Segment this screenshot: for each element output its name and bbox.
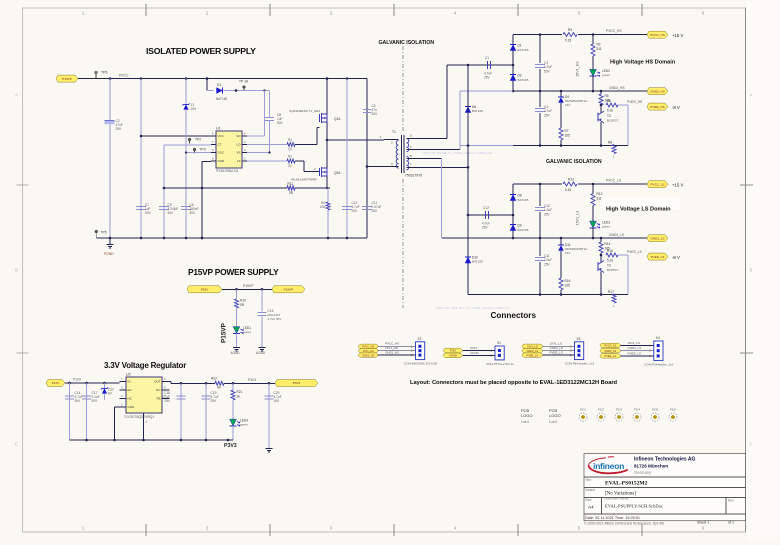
svg-text:D8: D8 [518,194,522,198]
svg-text:Rev:: Rev: [728,499,735,503]
svg-text:16V: 16V [565,103,570,107]
wire x540 vertical HS [539,35,541,146]
svg-text:PVCC: PVCC [119,74,129,78]
svg-text:Date: 02.11.2021 Time:: Date: 02.11.2021 Time: 15:25:51 [585,516,640,520]
resistor R12 led chain [592,184,594,194]
LED LED2 [590,69,597,76]
zener D4 chain [560,91,562,97]
svg-text:-8 V: -8 V [672,255,680,260]
U2 gnd stub to rail [115,406,120,408]
svg-text:GND2_LS: GND2_LS [609,233,625,237]
svg-text:15V1_HS: 15V1_HS [576,61,580,77]
high voltage LS domain subcircuit [602,197,680,209]
transformer core [401,135,403,173]
wire GND2_LS to connector [621,350,654,352]
test point TP2 [188,138,191,141]
svg-text:LOGO: LOGO [521,413,533,418]
wire VS y152.5 right [247,152,270,154]
svg-text:Q1A: Q1A [334,117,341,121]
svg-text:green: green [602,73,610,77]
net flag PVCC_HS [359,344,379,348]
svg-text:PVEE_LS: PVEE_LS [550,351,563,355]
ground AGND under LED1 [233,347,240,349]
capacitor C6 [181,206,191,208]
svg-text:50V: 50V [190,211,197,215]
wire bottom rail LS [468,294,628,296]
svg-text:R2: R2 [288,155,292,159]
svg-text:25V: 25V [372,209,379,213]
resistor R2 gate LS [247,160,287,162]
wire bottom rail HS [513,145,628,147]
svg-text:50V: 50V [168,211,175,215]
svg-text:R12: R12 [597,192,603,196]
svg-text:165: 165 [565,284,571,288]
svg-text:TP6: TP6 [101,71,107,75]
resistor R5 pvee chain [600,91,602,94]
svg-text:25V: 25V [164,399,171,403]
svg-text:BAT165: BAT165 [472,260,483,264]
svg-text:ISOLATED POWER SUPPLY: ISOLATED POWER SUPPLY [146,46,256,56]
net flag P15V [443,348,463,353]
svg-text:GND: GND [128,405,136,409]
diode D8 [510,194,516,200]
net flag 15V1_HS [359,349,379,353]
resistor R16 [559,278,563,290]
svg-text:P15VP: P15VP [62,77,72,81]
svg-text:5.1k: 5.1k [607,108,613,112]
svg-text:TP 1A: TP 1A [239,80,249,84]
wire vertical x164 [163,145,165,238]
svg-text:5.1k: 5.1k [607,258,613,262]
wire vertical x264.5 to VD pin [264,91,266,137]
svg-text:FID5: FID5 [652,408,659,412]
svg-text:15V1_LS: 15V1_LS [628,341,640,345]
svg-text:B: B [15,268,18,273]
svg-text:© 2009-2021 Altium Limited and: © 2009-2021 Altium Limited and its licen… [584,522,665,526]
wire PVEE_LS to connector [543,354,575,356]
svg-text:1k: 1k [237,394,241,398]
svg-text:10k: 10k [320,205,326,209]
svg-text:15V: 15V [191,107,198,111]
transistor T2 [600,105,602,113]
svg-text:CON-PTSA-2.5/2-LL: CON-PTSA-2.5/2-LL [486,362,515,366]
svg-text:P15VP: P15VP [284,288,294,292]
net flag P15VP right [272,286,305,293]
svg-text:FID2: FID2 [598,408,605,412]
svg-text:GND2_HS: GND2_HS [385,351,399,355]
connector X4 [654,341,663,360]
svg-text:50V: 50V [92,399,99,403]
resistor R13 [562,181,578,186]
net flag PVCC_LS [647,181,668,188]
svg-text:P15V: P15V [201,288,210,292]
svg-text:15V1_LS: 15V1_LS [527,345,538,349]
svg-text:PX3519DM-G4: PX3519DM-G4 [216,169,239,173]
svg-text:CT: CT [218,143,222,147]
svg-text:PVEE_LS: PVEE_LS [651,255,665,259]
svg-text:R1: R1 [288,138,292,142]
svg-text:C: C [15,442,18,447]
wire x442 light LS [441,159,443,239]
net flag P12V input [46,380,65,387]
svg-text:R14: R14 [605,242,611,246]
net flag P15V left [187,286,222,293]
svg-text:10: 10 [288,148,292,152]
svg-text:R17: R17 [608,290,614,294]
diode D1 branch [206,79,208,91]
svg-text:FID1: FID1 [580,408,587,412]
svg-text:R15: R15 [607,249,613,253]
title block frame [584,454,746,521]
frame row ticks and letters [17,184,29,186]
resistor R21 led chain [232,383,234,390]
capacitor C2 polarized [105,121,115,125]
svg-text:BAT165: BAT165 [472,109,483,113]
resistor R15 [600,254,603,257]
svg-text:CON-PinHeader_1x3: CON-PinHeader_1x3 [565,362,595,366]
svg-text:BAT165: BAT165 [518,198,529,202]
LED LED3 [590,221,597,228]
svg-text:High Voltage HS Domain: High Voltage HS Domain [610,60,676,66]
svg-text:OSC: OSC [218,151,225,155]
svg-text:P3V3: P3V3 [248,378,256,382]
svg-text:25V: 25V [544,212,551,216]
svg-text:IRLML6346TRPBF: IRLML6346TRPBF [291,177,317,181]
svg-text:X1: X1 [497,341,501,345]
svg-text:16V: 16V [274,399,281,403]
svg-text:IN: IN [128,380,131,384]
svg-text:Logo2: Logo2 [549,420,558,424]
svg-text:15V1_HS: 15V1_HS [385,346,398,350]
LED1 P15VP indicator [233,327,240,334]
svg-text:FB: FB [157,397,161,401]
wire primary node y140 [327,139,384,141]
wire vertical x141 [140,79,142,238]
svg-text:EN: EN [128,388,132,392]
svg-text:4.7uF 50V: 4.7uF 50V [268,317,282,321]
transistor T3 [600,253,602,263]
svg-text:R3: R3 [568,28,572,32]
svg-text:D1: D1 [217,83,221,87]
svg-text:T2: T2 [607,114,611,118]
svg-text:15V1_HS: 15V1_HS [363,349,374,353]
capacitor C19 [205,383,207,440]
capacitor C4 [534,107,546,113]
resistor R3 [562,32,578,37]
svg-text:LOGO: LOGO [549,413,561,418]
svg-text:GND2_LS: GND2_LS [650,236,664,240]
svg-text:green: green [243,330,251,334]
wire vertical x367 [366,79,368,238]
svg-text:25V: 25V [544,113,551,117]
svg-text:PVCC_HS: PVCC_HS [606,29,622,33]
svg-text:BAT165: BAT165 [518,78,529,82]
svg-text:P3V3: P3V3 [224,443,237,449]
svg-text:GND2_HS: GND2_HS [609,86,625,90]
wire vertical x186 [185,79,187,238]
wire gnd rail GND2_LS [442,237,648,239]
svg-text:0R: 0R [240,303,245,307]
wire OSC y152.5 [186,152,211,154]
svg-text:TP2: TP2 [195,138,201,142]
svg-text:BC857C: BC857C [607,118,619,122]
resistor R2 led chain [592,35,594,45]
svg-text:R2: R2 [597,43,601,47]
ground symbol PGND [109,238,111,244]
net flag PVEE_LS [600,354,621,358]
net flag GND2_HS [359,353,379,357]
infineon logo [589,457,628,474]
net flag PVEE_LS [522,353,543,357]
net flag PVEE_HS [647,103,668,110]
svg-text:GALVANIC ISOLATION: GALVANIC ISOLATION [379,40,435,46]
svg-text:A: A [15,93,18,98]
svg-text:LS: LS [237,159,241,163]
svg-text:P15VP: P15VP [243,284,254,288]
svg-text:25V: 25V [116,127,123,131]
svg-text:A: A [750,93,753,98]
svg-text:15V1_LS: 15V1_LS [550,342,562,346]
svg-text:C12: C12 [483,206,489,210]
resistor R1 gate HS [247,144,287,146]
svg-text:X4: X4 [656,336,660,340]
resistor R14 pvee chain [600,238,602,242]
wire GND2_LS to connector [543,350,575,352]
wire vertical x202 gnd [201,162,203,239]
svg-text:BAT165: BAT165 [216,97,228,101]
diode D2 [510,74,516,80]
wire 15V1_LS to connector [543,345,575,347]
capacitor C13 [342,206,352,208]
svg-text:511: 511 [597,197,602,201]
capacitor C1 [487,61,489,69]
transformer T1 [396,141,398,169]
ground AGND under C15 [259,347,266,349]
diode chain x513 LS [512,184,514,238]
svg-text:10: 10 [288,164,292,168]
svg-text:GALVANIC ISOLATION: GALVANIC ISOLATION [546,159,602,165]
svg-text:0.15: 0.15 [565,188,571,192]
wire 3v3 input rail [65,382,120,384]
transistor Q1 nmos [319,114,321,122]
wire x460 light HS [459,91,461,150]
wire top rail PVCC_HS [513,34,648,36]
svg-text:CON-PinHeader_1x3: CON-PinHeader_1x3 [644,362,674,366]
svg-text:P15V: P15V [470,346,477,350]
svg-text:R5: R5 [605,94,609,98]
svg-text:50V: 50V [145,211,152,215]
svg-text:P3V3: P3V3 [293,381,301,385]
resistor R6 [600,104,603,107]
page margin right [747,0,780,540]
svg-text:TLV76733QDRVRQ1: TLV76733QDRVRQ1 [124,415,154,419]
svg-text:25V: 25V [544,262,551,266]
net flag GND2_LS [600,349,621,353]
capacitor C9 on x367 [363,109,371,111]
wire x540 vertical LS [539,184,541,295]
svg-text:GND2_LS: GND2_LS [628,346,642,350]
svg-text:PVCC_LS: PVCC_LS [650,182,664,186]
svg-text:FID3: FID3 [616,408,623,412]
capacitor C11 on x367 [362,206,372,208]
svg-text:R21: R21 [237,390,243,394]
capacitor C12 [485,211,487,219]
wire gnd rail GND2_HS [460,90,648,92]
galvanic isolation dash-dot line [402,46,404,133]
svg-text:GND2_LS: GND2_LS [604,349,616,353]
svg-text:+15 V: +15 V [672,182,683,187]
svg-text:Q2A: Q2A [334,171,341,175]
svg-text:25V: 25V [211,399,218,403]
resistor R22 series [215,381,224,385]
svg-text:infineon: infineon [593,461,624,471]
svg-text:PVEE_HS: PVEE_HS [650,105,664,109]
wire PVEE_LS to connector [621,355,654,357]
net flag PVEE_LS [647,253,668,260]
svg-text:P12V: P12V [73,378,82,382]
svg-text:81726 München: 81726 München [634,464,668,469]
svg-text:EVAL-PS0152M2: EVAL-PS0152M2 [605,481,648,487]
svg-text:-8 V: -8 V [672,105,680,110]
svg-text:U2: U2 [126,373,131,377]
regulator U2 [126,377,162,413]
svg-text:Document Name:: Document Name: [605,497,630,501]
net flag P15VP input [56,75,78,82]
svg-text:0R: 0R [289,191,294,195]
net flag P3V3 [275,380,318,387]
connector X3 [575,342,584,360]
net flag GND2_LS [522,349,543,353]
svg-text:T1: T1 [392,130,396,134]
svg-text:Infineon Technologies AG: Infineon Technologies AG [634,457,696,463]
svg-text:. DNP: R14, R15, R17, T3 - P: . DNP: R14, R15, R17, T3 - PVEE_LS tied … [435,306,526,310]
svg-text:OUT: OUT [154,380,161,384]
diode D10 [465,257,471,263]
wire vertical x347 [346,79,348,238]
zener Z1 [183,104,188,109]
svg-text:T3: T3 [607,264,611,268]
svg-text:C: C [749,442,752,447]
svg-text:50V: 50V [277,121,284,125]
svg-text:X3: X3 [577,337,581,341]
svg-text:D2: D2 [518,74,522,78]
test point TP6 [95,71,98,74]
svg-text:R22: R22 [211,377,217,381]
wire PVCC_HS to connector [378,345,416,347]
transistor Q2 nmos [319,168,321,176]
net flag GND2_HS [647,88,668,95]
svg-text:Connectors: Connectors [491,311,537,320]
wire pvee box edge x628 LS [627,255,629,295]
svg-text:GND2_HS: GND2_HS [650,89,665,93]
wire P15V to connector [463,350,495,352]
wire top rail PVCC_LS [513,183,648,185]
svg-text:25V: 25V [352,209,359,213]
wire main rail P15VP y78.6 [78,78,367,80]
svg-text:BAT165: BAT165 [518,228,529,232]
wire GND2_HS to connector [378,354,416,356]
wire AGND to connector [463,354,495,356]
3v3 ground rail [70,439,234,441]
svg-text:FID4: FID4 [634,408,641,412]
net flag GND2_LS [647,235,668,242]
net flag PVCC_LS [600,343,621,347]
capacitor C11 [534,256,546,262]
svg-text:Logo1: Logo1 [521,420,530,424]
diode D9 [510,224,516,230]
svg-text:25V: 25V [482,226,489,230]
svg-text:511: 511 [597,47,602,51]
wire pvee box edge x628 HS [627,105,629,146]
svg-text:+15 V: +15 V [672,33,683,38]
svg-text:AGND: AGND [231,351,241,355]
resistor R11 in rail [287,186,295,190]
svg-text:50V: 50V [544,69,551,73]
wire mid rail LS y215 [468,214,513,216]
svg-text:. . DNP: R5, R6, R8, T2 - PV: . . DNP: R5, R6, R8, T2 - PVEE_HS tied t… [420,151,522,155]
capacitor C10 [534,206,546,212]
svg-text:165: 165 [565,134,571,138]
diode D6 [465,106,471,112]
resistor R4 below rail [326,202,330,210]
svg-text:Layout: Connectors must be pla: Layout: Connectors must be placed opposi… [410,380,618,386]
svg-text:VCC: VCC [218,134,225,138]
svg-text:Sheet 1: Sheet 1 [697,521,709,525]
svg-text:750317970: 750317970 [405,174,422,178]
svg-text:LO: LO [236,143,241,147]
svg-text:of 1: of 1 [728,521,734,525]
svg-text:VS: VS [236,151,240,155]
wire 3v3 output rail [169,382,171,384]
frame column ticks and numbers [145,4,147,16]
wire p15vp rail [222,288,272,290]
svg-text:X2: X2 [418,337,422,341]
svg-text:Size:: Size: [585,498,592,502]
svg-text:0.15: 0.15 [565,39,571,43]
diode chain x513 HS [512,35,514,92]
svg-text:Variant:: Variant: [585,488,596,492]
capacitor C20 [268,383,270,448]
svg-text:PVCC_LS: PVCC_LS [604,344,616,348]
resistor R10 [236,289,238,299]
capacitor C3 [534,63,546,69]
svg-text:GND2_HS: GND2_HS [362,353,375,357]
svg-text:GND: GND [218,159,226,163]
capacitor C18 [180,383,182,440]
svg-text:PVEE_LS: PVEE_LS [627,250,642,254]
svg-text:green: green [240,423,248,427]
svg-text:R16: R16 [565,279,571,283]
svg-text:green: green [602,225,610,229]
svg-text:Germany: Germany [634,470,652,475]
net flag PVCC_HS [647,31,668,38]
zener D11 chain [560,238,562,245]
svg-text:EVAL-PSUPPLY-SCH.SchDoc: EVAL-PSUPPLY-SCH.SchDoc [605,504,663,509]
svg-text:BC857C: BC857C [607,268,619,272]
svg-text:P15VP: P15VP [221,322,228,343]
svg-text:AGND: AGND [470,351,480,355]
svg-text:CON-MKDSN1,5/3-5,08: CON-MKDSN1,5/3-5,08 [404,362,437,366]
svg-text:FID6: FID6 [670,408,677,412]
svg-text:A4: A4 [588,505,594,510]
wire source rail y188 [164,187,287,189]
svg-text:B: B [750,268,753,273]
svg-text:PGND: PGND [104,252,114,256]
LED4 P3V3 indicator [230,419,237,426]
wire CT y145 [164,144,211,146]
svg-text:D1: D1 [518,44,522,48]
svg-text:TP3: TP3 [200,148,206,152]
